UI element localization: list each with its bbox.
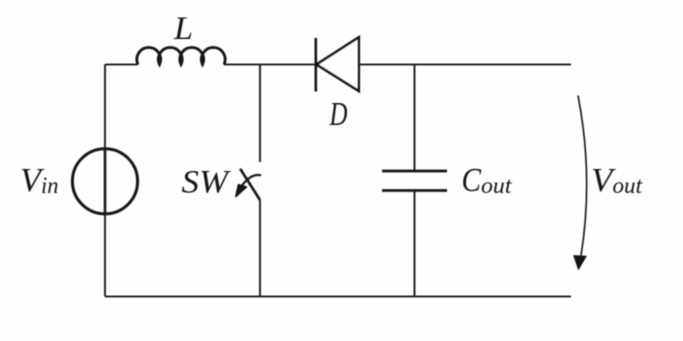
capacitor Cout bottom plate bbox=[382, 189, 447, 192]
switch SW arrowhead bbox=[236, 185, 247, 197]
wire: top rail left segment bbox=[105, 64, 138, 66]
wire: capacitor branch upper bbox=[414, 65, 416, 172]
source Vin internal bar bbox=[104, 148, 107, 216]
capacitor Cout top plate bbox=[382, 170, 447, 173]
inductor L bbox=[137, 47, 225, 64]
wire: top rail diode-to-right segment bbox=[359, 64, 571, 66]
wire: capacitor branch lower bbox=[414, 191, 416, 297]
Vout arrowhead bbox=[574, 256, 586, 270]
wire: switch branch upper bbox=[259, 65, 261, 163]
svg-text:Cout: Cout bbox=[462, 162, 513, 199]
svg-text:D: D bbox=[329, 96, 348, 133]
wire: left rail vertical (Vin branch) bbox=[104, 65, 106, 297]
diode D triangle bbox=[317, 37, 359, 91]
switch SW blade bbox=[240, 169, 260, 200]
source Vin circle bbox=[72, 149, 137, 214]
switch SW actuation arc bbox=[239, 175, 262, 191]
svg-text:SW: SW bbox=[182, 165, 231, 201]
wire: top rail inductor-to-diode segment bbox=[224, 64, 316, 66]
svg-text:L: L bbox=[173, 11, 193, 47]
diode D cathode bar bbox=[314, 38, 317, 92]
wire: switch branch lower bbox=[259, 200, 261, 297]
svg-text:Vout: Vout bbox=[591, 162, 643, 199]
wire: bottom rail bbox=[105, 296, 571, 298]
svg-text:Vin: Vin bbox=[20, 162, 59, 199]
Vout arrow curve bbox=[578, 96, 587, 260]
